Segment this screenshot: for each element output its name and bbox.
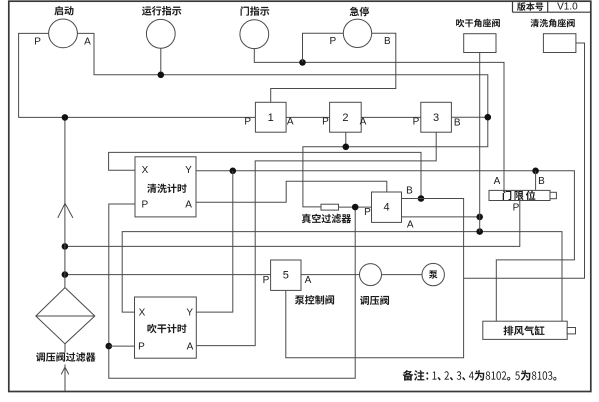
valve 吹干角座阀 bbox=[464, 34, 496, 53]
label 门限位 bbox=[503, 190, 536, 200]
limit switch 门限位 bbox=[489, 190, 550, 200]
wire: filter output to valve4 P bbox=[339, 206, 372, 208]
flow arrow at inlet bbox=[61, 367, 69, 374]
wire: valve4 B rail down, bottom run to 泵控制阀 bottom bbox=[286, 199, 464, 358]
wire: 门限位 B branch bbox=[535, 171, 537, 191]
node: junction valve3 B / row-75 drop bbox=[485, 114, 492, 121]
svg-text:A: A bbox=[185, 200, 192, 211]
svg-text:P: P bbox=[141, 200, 148, 211]
flow arrow on supply bus bbox=[58, 203, 73, 218]
wire: 门指示 drop, row 62 to 门限位 A bbox=[254, 49, 504, 191]
svg-text:P: P bbox=[413, 117, 420, 128]
wire: 吹干计时 P stub bbox=[109, 345, 135, 347]
svg-text:B: B bbox=[538, 176, 545, 187]
svg-text:Y: Y bbox=[185, 165, 192, 176]
wire: valve2 A to valve3 P bbox=[361, 116, 421, 118]
wire: branch to 清洗角座阀 bbox=[464, 43, 585, 278]
wire: 调压阀 to 泵 bbox=[382, 274, 422, 276]
svg-text:P: P bbox=[513, 202, 520, 213]
wire: 吹干角座阀 stem bbox=[479, 53, 481, 232]
node: junction valve4 B wire bbox=[418, 195, 425, 202]
svg-text:B: B bbox=[454, 118, 461, 129]
wire: supply row to 泵控制阀 P bbox=[65, 274, 271, 276]
svg-text:A: A bbox=[360, 117, 367, 128]
svg-text:B: B bbox=[406, 186, 413, 197]
node: junction valve4 P / P bus riser bbox=[352, 204, 359, 211]
svg-text:X: X bbox=[139, 308, 146, 319]
svg-text:A: A bbox=[305, 275, 312, 286]
label 排风气缸 bbox=[504, 326, 545, 336]
valve 4 bbox=[372, 192, 402, 222]
wire: filter to border stub bbox=[64, 344, 66, 352]
timer 清洗计时 bbox=[135, 157, 196, 217]
node: junction row 62 / 急停 P bbox=[299, 59, 306, 66]
wire: 启动 P to supply bus and valve-1 P rail bbox=[19, 33, 256, 117]
label 泵控制阀 bbox=[295, 295, 334, 304]
cylinder 排风气缸 bbox=[483, 321, 567, 339]
label 门指示 bbox=[241, 6, 270, 16]
wire: 清洗计时 A to valve4 top bbox=[196, 181, 387, 202]
pushbutton 急停 bbox=[343, 19, 371, 47]
title block bbox=[513, 1, 591, 12]
wire: timers P bus down and around to valve4 P junction bbox=[109, 204, 355, 378]
wire: 运行指示 drop to row 75 bbox=[160, 48, 162, 75]
svg-text:Y: Y bbox=[186, 308, 193, 319]
svg-text:P: P bbox=[322, 117, 329, 128]
svg-text:P: P bbox=[364, 207, 371, 218]
node: junction Y rail / 吹干计时 Y branch bbox=[230, 168, 237, 175]
valve 2 bbox=[330, 102, 362, 132]
indicator 运行指示 bbox=[146, 19, 175, 48]
node: junction Y rail / 门限位 B branch bbox=[532, 168, 539, 175]
svg-text:B: B bbox=[384, 36, 391, 47]
valve 3 bbox=[421, 102, 452, 132]
node: junction valve2 drop on filter feed line bbox=[343, 144, 350, 151]
svg-text:A: A bbox=[407, 220, 414, 231]
svg-text:V1.0: V1.0 bbox=[557, 2, 578, 13]
wire: 门限位 P down and left to supply bus bbox=[65, 201, 520, 247]
label 清洗计时 bbox=[147, 184, 187, 193]
wire: valve1 A to valve2 P bbox=[286, 116, 330, 118]
label 启动 bbox=[54, 6, 73, 15]
svg-text:P: P bbox=[34, 37, 41, 48]
svg-text:5: 5 bbox=[283, 270, 289, 282]
label 泵 in pump bbox=[429, 271, 438, 279]
svg-text:A: A bbox=[187, 342, 194, 353]
svg-text:A: A bbox=[494, 176, 501, 187]
indicator 启动 bbox=[49, 19, 78, 48]
label 清洗角座阀 bbox=[530, 19, 574, 28]
label 真空过滤器 bbox=[302, 214, 351, 224]
note 备注 bbox=[403, 370, 557, 381]
node: junction valve4 A / 吹干角座阀 stem bbox=[476, 214, 483, 221]
svg-text:1: 1 bbox=[268, 112, 274, 124]
wire: 吹干计时 A up to valve3 bottom bbox=[196, 132, 436, 345]
svg-text:4: 4 bbox=[383, 202, 389, 214]
wire: valve2 bottom drop bbox=[345, 132, 347, 147]
valve 5 泵控制阀 bbox=[271, 260, 301, 290]
wire: 泵控制阀 A to 调压阀 bbox=[301, 274, 359, 276]
svg-text:3: 3 bbox=[433, 112, 439, 124]
indicator 门指示 bbox=[240, 20, 269, 49]
title cell 版本号 bbox=[517, 2, 543, 11]
filter 真空过滤器 bbox=[321, 204, 339, 210]
label 调压阀 bbox=[360, 296, 389, 305]
node: junction supply bus row 246 bbox=[62, 243, 69, 250]
svg-text:P: P bbox=[138, 342, 145, 353]
wire: Y branch down to 吹干计时 Y bbox=[196, 171, 233, 312]
label 急停 bbox=[350, 7, 369, 17]
pump 泵 bbox=[422, 263, 444, 285]
svg-text:P: P bbox=[244, 117, 251, 128]
wire: 清洗计时 Y rail to 排风气缸 left bbox=[196, 171, 574, 321]
node: junction supply bus / valve rail bbox=[62, 114, 69, 121]
wire: 急停 B down and left to valve-1 top bbox=[271, 33, 396, 102]
wire: valve3 B to junction bbox=[451, 116, 487, 118]
wire: valve4 A to 吹干角座阀 stem bbox=[402, 216, 480, 218]
label 运行指示 bbox=[142, 6, 181, 16]
label 吹干计时 bbox=[147, 324, 186, 333]
wire: 吹干计时 X loop to 排风气缸 right bbox=[122, 232, 562, 322]
filter-regulator 调压阀过滤器 diamond bbox=[36, 288, 95, 344]
svg-text:2: 2 bbox=[342, 112, 348, 124]
valve 清洗角座阀 bbox=[543, 34, 576, 53]
node: junction 运行指示 on row 75 bbox=[158, 72, 165, 79]
timer 吹干计时 bbox=[135, 297, 197, 358]
svg-text:A: A bbox=[84, 37, 91, 48]
label 吹干角座阀 bbox=[456, 19, 500, 28]
valve 1 bbox=[255, 102, 286, 132]
node: junction X loop / 吹干角座阀 stem bbox=[476, 228, 483, 235]
wire: 启动 A down to indicator rail (row 75) then to B-junction and filter feed bbox=[77, 33, 487, 207]
wire: 急停 P branch up from row 62 bbox=[303, 33, 344, 62]
svg-text:X: X bbox=[142, 165, 149, 176]
node: junction supply bus row 274 bbox=[62, 271, 69, 278]
wire: supply bus vertical bbox=[64, 117, 66, 287]
svg-text:A: A bbox=[287, 117, 294, 128]
node: junction P bus / 吹干计时 P bbox=[106, 343, 113, 350]
wire: 清洗计时 X loop to valve4 B bbox=[109, 152, 421, 198]
svg-text:P: P bbox=[263, 275, 270, 286]
label 调压阀过滤器 bbox=[36, 352, 95, 362]
regulator 调压阀 bbox=[360, 264, 382, 286]
svg-text:P: P bbox=[329, 36, 336, 47]
